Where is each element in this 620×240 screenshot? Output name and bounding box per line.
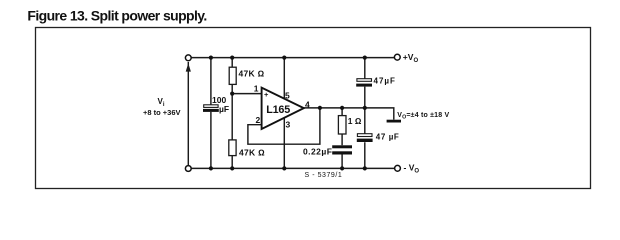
svg-text:3: 3 — [286, 120, 291, 130]
svg-text:1: 1 — [254, 84, 259, 94]
svg-text:Vi: Vi — [158, 97, 165, 108]
svg-text:- VO: - VO — [404, 163, 420, 175]
svg-text:47K Ω: 47K Ω — [239, 68, 265, 78]
svg-text:5: 5 — [285, 90, 290, 100]
svg-text:Figure 13. Split power supply.: Figure 13. Split power supply. — [27, 7, 206, 23]
svg-text:VO=±4 to ±18 V: VO=±4 to ±18 V — [397, 112, 449, 121]
svg-text:47 µF: 47 µF — [376, 132, 400, 141]
svg-text:L165: L165 — [266, 104, 290, 116]
svg-text:+: + — [264, 90, 269, 99]
svg-text:S - 5379/1: S - 5379/1 — [305, 172, 343, 179]
svg-text:µF: µF — [219, 104, 229, 114]
svg-text:0.22µF: 0.22µF — [303, 146, 332, 156]
svg-text:1 Ω: 1 Ω — [348, 116, 362, 126]
svg-text:47K Ω: 47K Ω — [239, 148, 265, 158]
svg-text:2: 2 — [256, 115, 261, 125]
svg-text:+8 to +36V: +8 to +36V — [143, 108, 181, 117]
svg-text:47µF: 47µF — [374, 77, 396, 86]
svg-text:4: 4 — [305, 99, 310, 109]
svg-text:+VO: +VO — [403, 52, 419, 64]
